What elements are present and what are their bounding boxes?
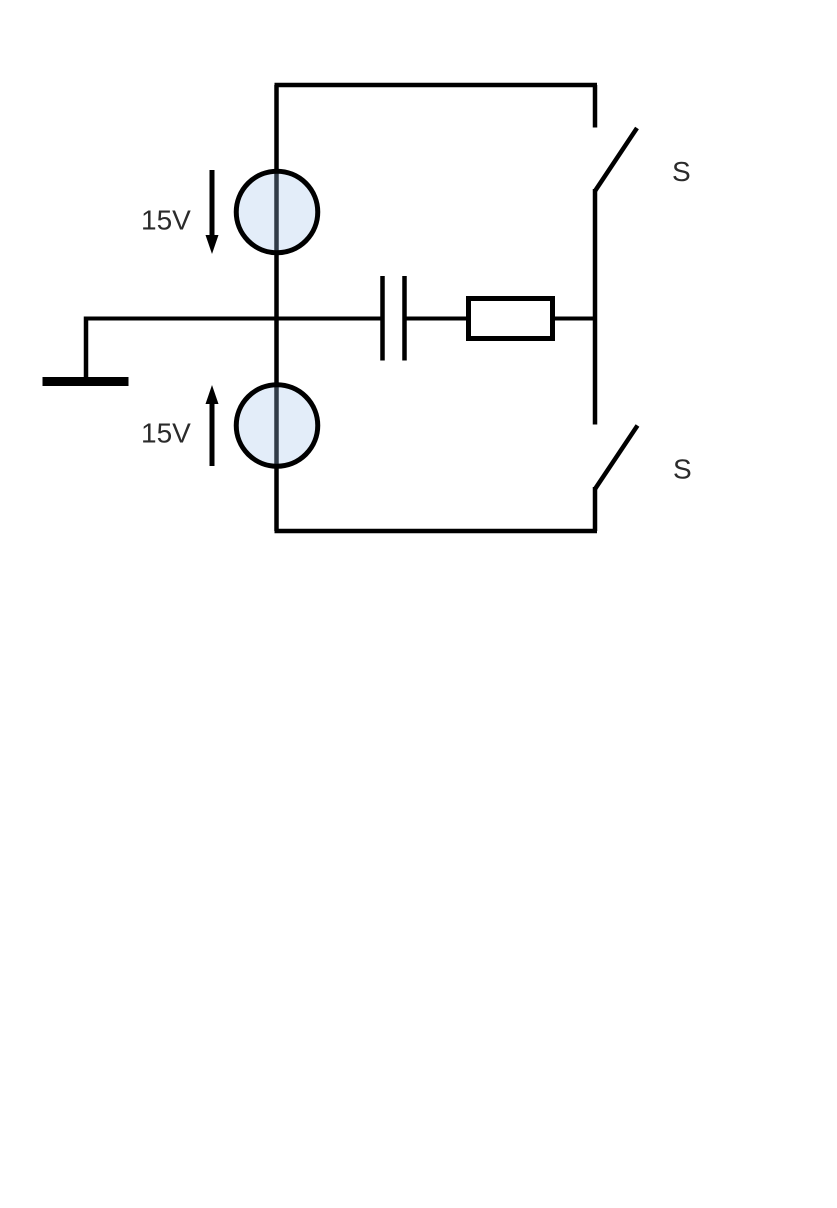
svg-text:S: S (672, 156, 691, 187)
wire left vertical (through both sources) (274, 85, 279, 531)
ground bar (43, 377, 129, 386)
resistor R1 body (469, 299, 553, 339)
wire top horizontal (275, 83, 598, 88)
wire middle left (ground node to capacitor) (86, 317, 381, 321)
switch S1 blade (595, 128, 637, 191)
svg-text:15V: 15V (141, 205, 191, 236)
svg-text:15V: 15V (141, 418, 191, 449)
voltage source V1 (top) (236, 171, 318, 253)
wire ground drop (84, 317, 89, 380)
wire capacitor to resistor (406, 317, 468, 321)
wire resistor to right rail (553, 317, 595, 321)
wire right lower segment (593, 487, 598, 531)
wire right upper segment (to switch S1 top terminal) (593, 85, 598, 128)
capacitor C1 left plate (380, 276, 385, 361)
capacitor C1 right plate (402, 276, 407, 361)
svg-text:S: S (673, 454, 692, 485)
voltage source V2 (bottom) (236, 385, 318, 467)
polarity arrow (down) for V1 (206, 170, 219, 254)
wire bottom horizontal (275, 529, 598, 534)
wire right middle segment (between switches) (593, 189, 598, 425)
switch S2 blade (595, 426, 638, 490)
polarity arrow (up) for V2 (206, 385, 219, 466)
